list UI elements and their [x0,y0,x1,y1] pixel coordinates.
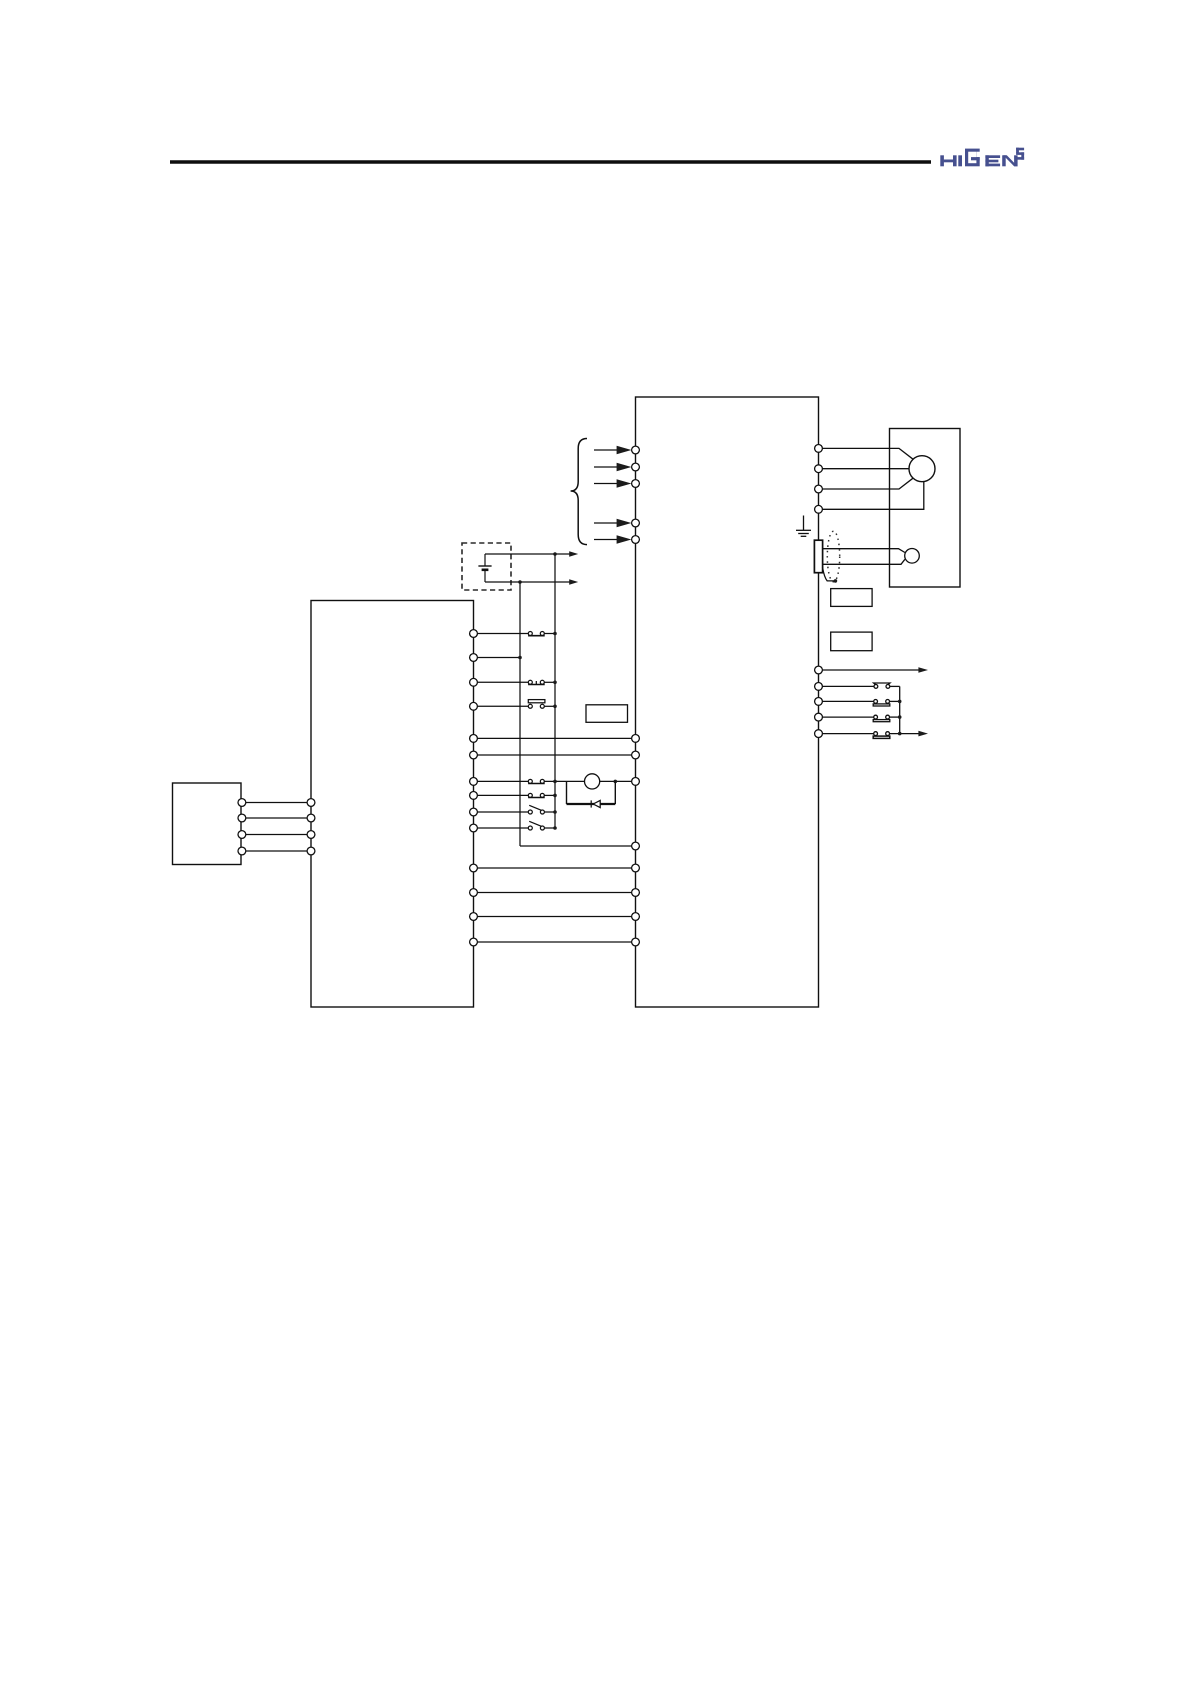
shield ellipse [827,531,839,582]
brace for input group [571,439,587,545]
relay contact RY1 y686.4 [874,683,890,688]
wire input arrow row y483.5 [594,479,631,488]
terminal drive out y448.4 [815,445,823,453]
switch SW1 contact y633.5 [528,632,545,636]
label box L3 [831,632,872,651]
header rule [170,160,931,163]
wire output arrow y670 [822,667,928,673]
terminal controller y828 [470,824,478,832]
motor box M1 [890,429,961,588]
wire input arrow row y523 [594,519,631,528]
terminal controller y706.3 [470,702,478,710]
wire motor phase U y448.4 [822,448,913,459]
terminal CN1 input y450 [632,446,640,454]
relay coil K1 [585,774,632,789]
wire input arrow row y450 [594,446,631,455]
wire row y892.5 [477,892,631,894]
motor M [909,456,935,482]
wire battery minus y582 [485,579,578,585]
terminal pair y738.4 [470,735,640,743]
terminal drive out y468.7 [815,465,823,473]
terminal controller y812 [470,808,478,816]
terminal drive out y670 [815,666,823,674]
terminal CN1 input y467 [632,463,640,471]
wire row y868 [477,867,631,869]
terminal CN1 input y539.5 [632,536,640,544]
HIGEN logo [940,148,1024,167]
wire row y633.5 [477,632,556,636]
shield drain wire [823,567,838,583]
ground symbol [796,516,811,537]
terminal drive y846 [632,842,640,850]
wire output y701.4 [822,700,901,704]
terminal CN1 input y523 [632,519,640,527]
terminal drive out y733.6 [815,730,823,738]
terminal controller y633.5 [470,630,478,638]
wire output y717.1 [822,715,901,719]
wire row y682.3 [477,681,556,685]
battery dashed enclosure [462,543,511,590]
terminal controller y682.3 [470,678,478,686]
switch SW2 contact y682.3 [528,680,545,684]
terminal controller y657.5 [470,654,478,662]
terminal drive out y701.4 [815,698,823,706]
terminal controller y795.4 [470,792,478,800]
controller box U2 [311,601,474,1008]
wire row y755 [477,754,631,756]
wire encoder B y564.3 [823,559,905,564]
terminal pair y892.5 [470,889,640,897]
wire output arrow y733.6 [822,731,928,737]
wire encoder A y548.7 [823,549,905,553]
terminal host y851 [238,847,315,855]
relay contact RY2 y701.4 [873,700,890,707]
wire row y657.5 [477,656,521,660]
terminal drive out y717.1 [815,713,823,721]
terminal pair y942 [470,938,640,946]
wire input arrow row y539.5 [594,535,631,544]
label box L2 [831,589,872,607]
terminal pair y781.4 [470,778,640,786]
wire row y706.3 [477,705,556,709]
encoder E [905,549,920,564]
terminal CN1 input y483.5 [632,480,640,488]
terminal pair y868 [470,864,640,872]
wire motor phase W y489 [822,478,913,489]
switch SW4 contact y795.4 [528,793,545,797]
wire row y738.4 [477,737,631,739]
pushbutton PB1 y706.3 [528,700,545,709]
switch SW6 toggle y828 [528,821,544,830]
connector CN2 [814,540,822,573]
label box L1 [586,705,628,723]
terminal pair y916.5 [470,913,640,921]
wire row y812 [477,810,556,814]
host box U3 [173,783,242,865]
terminal host y834.5 [238,831,315,839]
battery BT1 [478,554,491,582]
wire host row y818 [246,817,307,819]
wire motor earth y509.3 [822,482,923,510]
terminal drive out y509.3 [815,505,823,513]
wire battery plus y554 [485,551,578,557]
relay contact RY3 y717.1 [873,715,890,722]
wire row y916.5 [477,916,631,918]
wire output y686.4 [822,685,899,687]
bus wire vertical x899.7 [899,686,901,733]
relay contact RY4 y733.6 [873,732,890,739]
terminal host y802.5 [238,799,315,807]
main diagram [173,397,961,1007]
wire host row y834.5 [246,834,307,836]
wire input arrow row y467 [594,463,631,472]
switch SW5 toggle y812 [528,805,544,814]
terminal host y818 [238,814,315,822]
terminal drive out y686.4 [815,683,823,691]
wire host row y851 [246,850,307,852]
wire row y781.4 [477,780,584,784]
switch SW3 contact y781.4 [528,779,545,783]
bus wire vertical x555 [554,554,556,828]
wire motor phase V y468.7 [822,468,909,470]
diode D1 bypass loop [567,781,616,807]
wire row y828 [477,826,556,830]
wire host row y802.5 [246,802,307,804]
servo drive box U1 [636,397,819,1007]
terminal drive out y489 [815,485,823,493]
terminal pair y755 [470,751,640,759]
bus wire vertical x520 [520,582,632,846]
wire row y795.4 [477,794,556,798]
wire row y942 [477,941,631,943]
